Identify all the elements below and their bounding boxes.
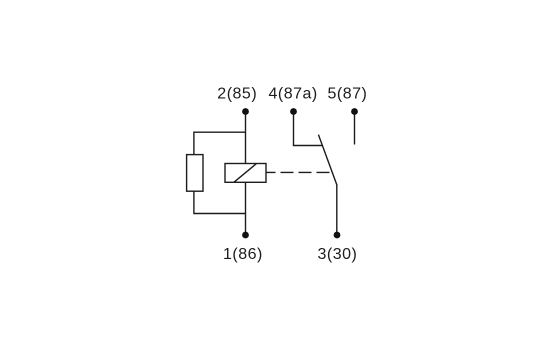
coil diagonal stroke (234, 164, 256, 183)
wire coil bottom to terminal 1(86) (245, 182, 247, 235)
wire blade to terminal 3(30) (336, 184, 338, 235)
node terminal dot 3(30) (334, 232, 341, 239)
wire left vertical upper (193, 132, 195, 155)
resistor R1 (187, 155, 203, 192)
wire terminal 2(85) to coil top (245, 112, 247, 164)
svg-text:2(85): 2(85) (217, 86, 257, 103)
svg-text:1(86): 1(86) (223, 246, 263, 263)
switch blade S1 (318, 135, 336, 185)
wire top horizontal of resistor branch (194, 131, 246, 133)
wire bottom horizontal of resistor branch (194, 213, 246, 215)
node terminal dot 4(87a) (290, 108, 297, 115)
mechanical link dashed wire (266, 171, 331, 173)
node terminal dot 2(85) (242, 108, 249, 115)
node terminal dot 5(87) (351, 108, 358, 115)
svg-text:4(87a): 4(87a) (269, 86, 318, 103)
relay coil K1 (225, 164, 266, 183)
wire left vertical lower (193, 191, 195, 214)
svg-text:5(87): 5(87) (328, 86, 368, 103)
node terminal dot 1(86) (242, 232, 249, 239)
wire 4(87a) horizontal to contact (293, 145, 322, 147)
svg-text:3(30): 3(30) (318, 246, 358, 263)
wire terminal 5(87) vertical (354, 112, 356, 145)
wire terminal 4(87a) vertical (293, 112, 295, 146)
